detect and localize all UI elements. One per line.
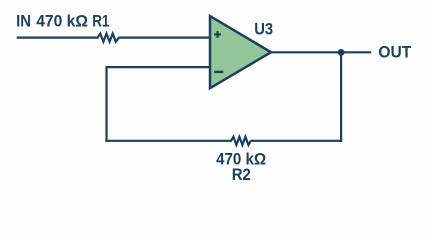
- svg-text:R2: R2: [232, 165, 251, 184]
- svg-text:U3: U3: [254, 20, 273, 39]
- wire IN to op-amp + input (left segment): [17, 36, 99, 38]
- wire feedback bottom right segment: [251, 140, 343, 142]
- op-amp - input symbol: [214, 71, 223, 73]
- resistor R1: [98, 34, 119, 42]
- svg-text:470 kΩ: 470 kΩ: [36, 12, 88, 31]
- svg-text:IN: IN: [16, 12, 31, 31]
- op-amp + input symbol: [214, 31, 221, 38]
- wire R1 to op-amp + input (right segment): [119, 36, 212, 38]
- svg-text:R1: R1: [92, 12, 109, 31]
- junction node dot: [338, 49, 345, 56]
- op-amp U3 triangle: [210, 16, 271, 88]
- wire feedback right vertical: [340, 52, 342, 141]
- wire feedback left vertical: [105, 66, 107, 142]
- wire feedback bottom left segment: [105, 140, 232, 142]
- resistor R2: [231, 137, 251, 145]
- svg-text:OUT: OUT: [378, 43, 411, 62]
- wire feedback to op-amp - input: [107, 66, 212, 68]
- wire op-amp output: [270, 51, 371, 53]
